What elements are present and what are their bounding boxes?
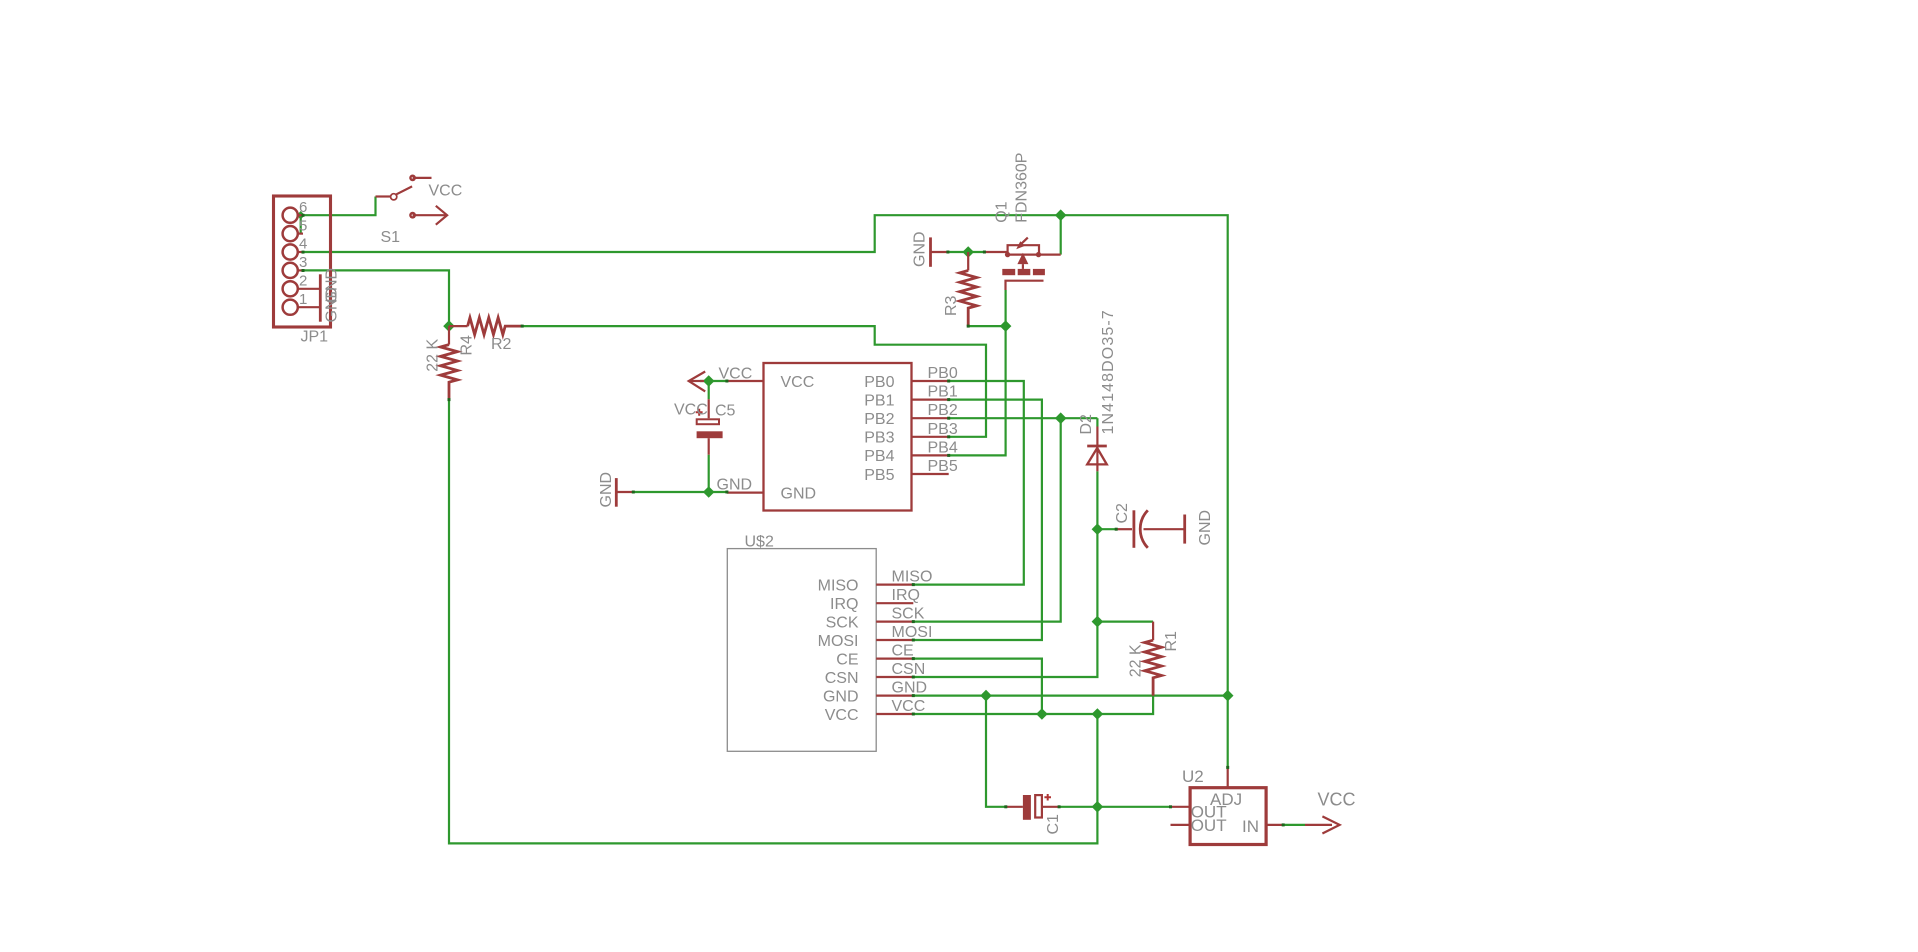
junction VCC node at IC1 [703, 375, 715, 387]
switch S1 top contact dot [409, 175, 416, 182]
ground symbol at Q1 gate [929, 237, 932, 266]
svg-text:GND: GND [717, 477, 753, 494]
module U$2 box [727, 549, 876, 752]
diode D2 [1087, 427, 1107, 472]
junction GND row / right rail [1222, 690, 1234, 702]
svg-text:6: 6 [299, 199, 307, 216]
junction D2 / C2 node [1092, 523, 1104, 535]
C2 straight plate [1133, 510, 1136, 548]
svg-text:VCC: VCC [429, 182, 463, 199]
switch S1 bottom contact dot [409, 212, 416, 219]
supply arrow VCC at U2 IN [1305, 824, 1332, 826]
C5 bottom plate (filled) [697, 431, 723, 438]
svg-text:C5: C5 [715, 403, 736, 420]
resistor R2 (horizontal) [449, 325, 468, 327]
C2 left lead [1116, 528, 1132, 530]
svg-text:C1: C1 [1045, 814, 1062, 835]
wire Q1 source drop from top rail [1060, 215, 1062, 254]
wire C5 bottom stub to GND rail [708, 455, 710, 492]
wire C5 top stub [708, 381, 710, 399]
U2 OUT pin stub (upper left) [1171, 806, 1191, 808]
capacitor C5 (polarized, vertical) [696, 399, 723, 455]
svg-text:D2: D2 [1078, 414, 1095, 435]
svg-text:PB0: PB0 [928, 365, 958, 382]
svg-text:Q1: Q1 [994, 201, 1011, 222]
resistor R3 (vertical) [967, 252, 969, 271]
capacitor C2 [1116, 510, 1185, 548]
Q1 body diode triangle [1017, 253, 1028, 264]
wire U2 IN to VCC arrow [1283, 824, 1305, 826]
D2 anode lead [1096, 448, 1098, 471]
svg-text:1N4148DO35-7: 1N4148DO35-7 [1100, 309, 1117, 434]
Q1 pin junction dots [1005, 252, 1010, 257]
Q1 source-drain row line [1008, 254, 1061, 256]
wire R1 top tap [1097, 620, 1153, 622]
svg-text:PB5: PB5 [864, 467, 894, 484]
svg-text:VCC: VCC [674, 402, 708, 419]
Q1 substrate arrow glyph [1021, 238, 1028, 245]
svg-text:GND: GND [823, 688, 859, 705]
junction PB2 node [1055, 412, 1067, 424]
IC1 left pin stubs [727, 381, 764, 493]
D2 triangle [1087, 448, 1107, 464]
svg-text:IN: IN [1242, 817, 1259, 836]
wire VCC arrow to IC1 VCC pin [700, 380, 727, 382]
junction top rail / Q1 source [1055, 209, 1067, 221]
junction GND node at C5 [703, 486, 715, 498]
svg-text:R4: R4 [459, 335, 476, 356]
wire net PIN3: JP1 pin3 to R4 top junction [303, 270, 449, 326]
junction VCC row / CE [1036, 708, 1048, 720]
svg-text:R2: R2 [491, 336, 512, 353]
wire net RAW: JP1 pin4 right, up, top rail, down right side to GND row and U2 ADJ [303, 215, 1228, 767]
svg-text:4: 4 [299, 236, 307, 253]
svg-text:3: 3 [299, 254, 307, 271]
regulator U2 box [1190, 788, 1266, 845]
wire net VCC-SW: JP1 pin6 to switch S1 [301, 197, 376, 216]
svg-text:GND: GND [892, 680, 928, 697]
svg-text:C2: C2 [1114, 503, 1131, 524]
svg-text:PB4: PB4 [864, 448, 894, 465]
svg-text:PB5: PB5 [928, 458, 958, 475]
C2 right lead [1144, 528, 1185, 530]
svg-text:SCK: SCK [826, 614, 859, 631]
ground symbol at C2 [1183, 515, 1186, 544]
svg-text:VCC: VCC [825, 707, 859, 724]
wire net MISO: U$2 MISO to PB0 [913, 381, 1024, 585]
U2 ADJ pin stub (top) [1227, 767, 1229, 787]
svg-text:PB3: PB3 [864, 430, 894, 447]
connector JP1 outline [274, 196, 331, 327]
svg-text:PB1: PB1 [864, 392, 894, 409]
wire D2 top stub from PB2 row [1096, 418, 1098, 426]
wire C1 left column from GND row [986, 696, 1006, 807]
wire tie pins 6-5 of JP1 [300, 215, 302, 233]
wire Q1 drain column down to PB4 pin [949, 290, 1006, 455]
ground bar at JP1 pins 1-2 [319, 274, 322, 321]
IC1 right pin stubs [912, 381, 949, 474]
wire gate row: GND bar to Q1 gate [948, 251, 985, 253]
svg-text:R3: R3 [943, 295, 960, 316]
connector JP1 pin circles [283, 208, 298, 315]
switch S1 lever [396, 186, 412, 194]
svg-text:CE: CE [892, 643, 914, 660]
svg-text:22 K: 22 K [425, 339, 442, 372]
pin connection dots [302, 214, 1285, 827]
svg-text:U$2: U$2 [745, 534, 774, 551]
C1 right plate (hollow) [1035, 795, 1042, 817]
svg-text:CSN: CSN [892, 661, 926, 678]
svg-text:IRQ: IRQ [830, 596, 858, 613]
wire net MOSI: U$2 MOSI to PB1 [913, 400, 1042, 640]
wire GND rail to IC1 GND pin [633, 491, 727, 493]
wire net GND row of U$2 to right rail [913, 694, 1227, 696]
svg-text:PB0: PB0 [864, 374, 894, 391]
svg-text:CSN: CSN [825, 670, 859, 687]
svg-text:IRQ: IRQ [892, 587, 920, 604]
D2 cathode bar [1087, 445, 1107, 448]
Q1 channel bars [1002, 269, 1015, 275]
U$2 right pin stubs [876, 585, 913, 714]
junction C1 / OUT node [1092, 801, 1104, 813]
wire C2 stub [1097, 528, 1116, 530]
switch S1 common contact circle [391, 194, 397, 200]
svg-text:JP1: JP1 [301, 329, 329, 346]
svg-text:S1: S1 [381, 229, 401, 246]
svg-text:VCC: VCC [781, 374, 815, 391]
C1 right lead [1043, 806, 1059, 808]
transistor Q1 P-MOSFET symbol [984, 238, 1060, 290]
svg-text:5: 5 [299, 217, 307, 234]
svg-text:PB4: PB4 [928, 439, 958, 456]
svg-text:FDN360P: FDN360P [1014, 153, 1031, 223]
C5 bottom lead [708, 438, 710, 455]
wire D2 bottom down to CSN row [913, 471, 1097, 677]
U2 OUT pin stub (lower left, unconnected) [1171, 824, 1191, 826]
svg-text:MOSI: MOSI [818, 633, 859, 650]
svg-text:GND: GND [324, 287, 341, 323]
svg-text:PB2: PB2 [928, 402, 958, 419]
svg-text:MOSI: MOSI [892, 624, 933, 641]
supply arrow VCC at IC1 (pointing left) [689, 380, 704, 382]
wire bottom rail from R4 bottom to C1 node [449, 400, 1097, 844]
svg-text:PB2: PB2 [864, 411, 894, 428]
svg-text:GND: GND [781, 486, 817, 503]
junction R1 tap on CSN column [1092, 616, 1104, 628]
resistor R1 (vertical) [1152, 622, 1154, 641]
ground symbol left of IC1 [615, 478, 618, 507]
C5 plus mark [696, 409, 703, 416]
C5 top lead [708, 399, 710, 418]
junction R4/R2 node [443, 320, 455, 332]
svg-text:MISO: MISO [892, 569, 933, 586]
svg-text:PB3: PB3 [928, 421, 958, 438]
wire net VCC row of U$2 to R1 bottom [913, 696, 1153, 714]
switch S1 top lead [413, 177, 432, 179]
svg-text:GND: GND [912, 231, 929, 267]
wire VCC drop to C1 node [1096, 714, 1098, 807]
svg-text:2: 2 [299, 273, 307, 290]
C1 left lead [1006, 806, 1023, 808]
C1 left plate (filled) [1023, 795, 1031, 820]
junction gate/R3 node [962, 246, 974, 258]
wire R3 bottom to Q1 drain column [968, 325, 1005, 327]
svg-text:1: 1 [299, 291, 307, 308]
junction GND row / C1 left column [980, 690, 992, 702]
wire PB2 column down to SCK row [913, 418, 1060, 621]
svg-text:22 K: 22 K [1128, 644, 1145, 677]
svg-text:VCC: VCC [1318, 789, 1356, 809]
U2 IN pin stub (right) [1266, 824, 1283, 826]
svg-text:GND: GND [1197, 510, 1214, 546]
supply arrow VCC at S1 [413, 214, 446, 216]
Q1 gate pin [984, 251, 1007, 253]
wire net CE: U$2 CE down to VCC row [913, 659, 1042, 714]
svg-text:GND: GND [598, 472, 615, 508]
junction VCC row / C1 drop [1092, 708, 1104, 720]
wire net R2 to PB3 [522, 326, 986, 437]
svg-text:CE: CE [836, 651, 858, 668]
capacitor C1 (polarized, horizontal) [1006, 794, 1059, 820]
C2 curved plate [1140, 510, 1148, 548]
wire C1 right to U2 OUT [1059, 806, 1170, 808]
connector JP1 pin stubs [298, 215, 321, 307]
Q1 bottom substrate line [1006, 281, 1044, 290]
resistor R4 (vertical) [448, 326, 450, 345]
wire net PB2 row to D2 column [949, 417, 1098, 419]
svg-text:PB1: PB1 [928, 384, 958, 401]
C5 top plate (hollow) [697, 419, 719, 424]
C1 plus mark [1044, 794, 1051, 801]
svg-text:U2: U2 [1182, 767, 1204, 786]
junction Q1 drain / R3 node [1000, 320, 1012, 332]
svg-text:MISO: MISO [818, 577, 859, 594]
IC1 ATtiny box [764, 363, 912, 511]
D2 cathode lead [1096, 427, 1098, 449]
svg-text:R1: R1 [1163, 631, 1180, 652]
svg-text:VCC: VCC [892, 698, 926, 715]
svg-text:OUT: OUT [1191, 816, 1227, 835]
junction at JP1 pin 6 [297, 211, 305, 219]
svg-text:SCK: SCK [892, 606, 925, 623]
switch S1 common lead [376, 195, 391, 197]
Q1 top bracket [1008, 245, 1039, 254]
